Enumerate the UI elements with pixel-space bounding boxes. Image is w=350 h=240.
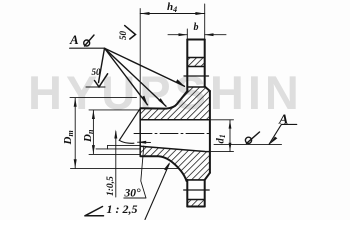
h4 extension line right xyxy=(204,4,206,40)
Dm arrow top xyxy=(74,98,77,107)
b dimension line left part xyxy=(168,34,187,36)
angle symbol xyxy=(85,207,104,216)
fan leader L2 xyxy=(105,48,167,106)
leader 1:0,5 xyxy=(115,132,117,198)
hub taper top xyxy=(141,91,188,109)
d1 extension bottom xyxy=(211,151,234,153)
b arrow left xyxy=(179,33,188,36)
flange plate right face upper xyxy=(204,40,206,87)
pipe end bevel line 30deg xyxy=(119,109,140,141)
Dn extension bottom xyxy=(89,153,140,155)
fan leader L1 xyxy=(105,48,185,86)
svg-text:1 : 2,5: 1 : 2,5 xyxy=(107,202,138,216)
plate left face lower xyxy=(186,180,188,207)
hatch lower body xyxy=(141,146,210,180)
flange plate left face upper xyxy=(186,40,188,91)
raised face chamfer top xyxy=(205,87,210,92)
taper leader 1:2,5 xyxy=(145,164,169,220)
Dn dimension line xyxy=(92,110,94,154)
bolt hole axis bottom xyxy=(184,189,210,191)
hatch top band xyxy=(187,58,204,67)
bore bottom cone line xyxy=(141,146,210,151)
svg-text:A: A xyxy=(69,32,79,47)
svg-text:50: 50 xyxy=(118,31,128,41)
bolt hole line lower bottom xyxy=(187,199,204,201)
A leader right xyxy=(269,124,297,144)
Dm extension top xyxy=(70,97,137,99)
bolt hole band line 2 xyxy=(187,66,204,68)
A surface symbol top-left xyxy=(84,40,90,46)
b arrow right xyxy=(205,33,214,36)
raised face xyxy=(209,91,211,173)
d1 dimension line xyxy=(229,120,231,152)
Dn arrow bottom xyxy=(92,145,95,154)
Dn arrow top xyxy=(92,110,95,119)
b extension left xyxy=(186,29,188,40)
fan leader L3 xyxy=(105,48,148,105)
raised face chamfer bottom xyxy=(205,173,210,180)
A label shelf top-left xyxy=(70,47,105,49)
plate bottom edge xyxy=(187,206,204,208)
A surface symbol right xyxy=(245,137,251,143)
b dimension line right part xyxy=(205,34,226,36)
bracket line 1 xyxy=(108,144,141,146)
hatch bottom band xyxy=(187,200,204,206)
Dm extension bottom xyxy=(71,168,178,170)
svg-text:1:0,5: 1:0,5 xyxy=(106,176,116,196)
svg-text:50: 50 xyxy=(92,67,102,77)
Dn extension top xyxy=(89,109,140,111)
h4 extension line left xyxy=(139,9,141,108)
svg-text:d1: d1 xyxy=(216,134,228,143)
h4 dimension line xyxy=(140,13,205,15)
d1 arrow top xyxy=(229,120,232,129)
bolt hole axis top xyxy=(184,75,209,77)
plate right face lower xyxy=(204,180,206,207)
svg-text:Dn: Dn xyxy=(82,129,95,143)
bolt hole line lower top xyxy=(187,179,204,181)
Dm dimension line xyxy=(74,98,76,168)
bracket line 2 xyxy=(96,148,140,150)
h4 arrow right xyxy=(195,12,204,15)
svg-text:h4: h4 xyxy=(167,1,177,14)
hatch upper body xyxy=(141,87,210,120)
A view line right xyxy=(214,144,282,146)
bracket vertical xyxy=(107,145,109,149)
roughness check mid-left xyxy=(95,74,108,87)
watermark HYUPSHIN xyxy=(28,65,303,120)
bore top line xyxy=(141,119,210,121)
svg-text:30°: 30° xyxy=(124,188,142,200)
svg-text:Dm: Dm xyxy=(62,130,75,145)
svg-text:A: A xyxy=(278,113,288,128)
bevel leader curve xyxy=(119,140,134,143)
roughness 50 shelf mid-left xyxy=(86,86,105,88)
centerline xyxy=(134,133,212,135)
flange plate top edge xyxy=(187,39,204,41)
svg-text:b: b xyxy=(194,22,199,33)
h4 arrow left xyxy=(140,12,149,15)
bolt hole band line 1 xyxy=(187,57,204,59)
30 deg leader xyxy=(141,146,146,198)
d1 extension top xyxy=(211,119,234,121)
d1 arrow bottom xyxy=(229,143,232,152)
Dm arrow bottom xyxy=(74,159,77,168)
bolt hole bottom line top xyxy=(187,86,204,88)
hub end face xyxy=(139,108,141,156)
hub bottom outline xyxy=(141,156,187,181)
fan leader L4 xyxy=(99,48,105,82)
roughness check 50 top xyxy=(125,26,136,39)
30 deg underline xyxy=(124,197,146,199)
